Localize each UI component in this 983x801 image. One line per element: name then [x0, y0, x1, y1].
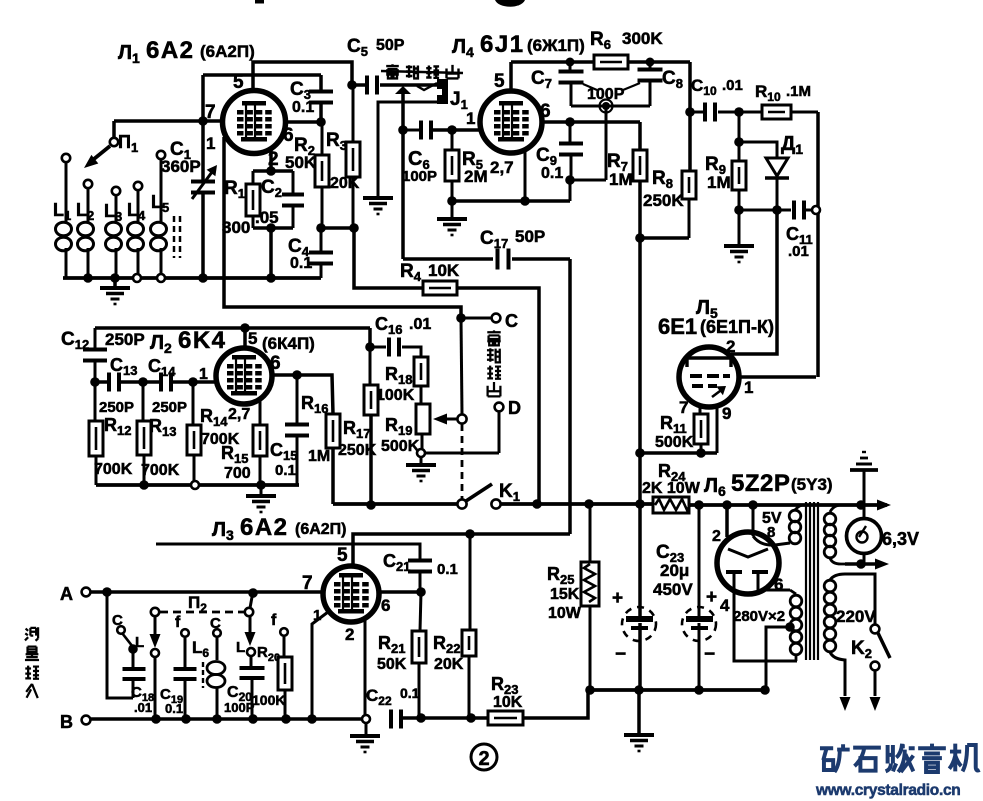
page mark arc (top edge, bottom of circled numeral)	[495, 0, 525, 7]
svg-text:1: 1	[466, 109, 475, 128]
capacitor C2 .05	[292, 171, 295, 194]
switch П2 dashed line	[160, 611, 244, 614]
ground bus of input coils	[63, 276, 321, 280]
resistor R7 1M	[638, 122, 642, 150]
svg-text:50P: 50P	[515, 227, 545, 246]
bus wire left segment	[333, 502, 457, 506]
svg-text:+: +	[612, 588, 623, 609]
svg-text:L: L	[236, 639, 245, 656]
svg-text:1M: 1M	[609, 170, 633, 189]
ground symbol Л2 bus	[260, 485, 263, 495]
switch K2	[871, 625, 880, 634]
label 测量输入	[25, 627, 38, 640]
svg-text:.01: .01	[788, 243, 809, 260]
svg-text:50P: 50P	[376, 37, 405, 54]
svg-text:f: f	[271, 612, 277, 629]
wire C node to wiper	[461, 318, 462, 414]
tube U2 Л4 circle	[480, 91, 542, 153]
svg-text:1M: 1M	[707, 173, 731, 192]
svg-text:250P: 250P	[99, 399, 134, 416]
capacitor C6 100P	[403, 129, 419, 132]
resistor R16 1M	[326, 414, 340, 448]
tube label Л3 6A2(6А2П)	[212, 514, 347, 543]
wire C3 riser	[319, 75, 323, 91]
svg-text:(6Ж1П): (6Ж1П)	[527, 36, 585, 55]
wire R9 branch	[738, 112, 741, 161]
capacitor C10 .01	[690, 111, 703, 114]
svg-text:450V: 450V	[653, 580, 693, 599]
center tap 280V	[785, 622, 795, 632]
label R4 10K	[400, 261, 460, 284]
inductor L3	[106, 187, 122, 278]
svg-text:10W: 10W	[548, 605, 582, 622]
detector output row	[739, 209, 791, 212]
resistor R18 100K	[414, 357, 428, 386]
inductor L1	[56, 154, 72, 278]
wire drop to C9 row	[605, 106, 608, 180]
svg-text:6J1: 6J1	[480, 31, 525, 58]
svg-text:0.1: 0.1	[275, 462, 296, 479]
svg-text:.1M: .1M	[786, 83, 811, 100]
ground symbol above (heater)	[863, 470, 866, 505]
resistor R5 2M	[447, 125, 457, 135]
svg-text:(5Y3): (5Y3)	[791, 475, 833, 494]
svg-text:0.1: 0.1	[541, 165, 563, 182]
wire R3 to R4 drop	[354, 228, 423, 288]
svg-text:6: 6	[540, 101, 551, 122]
label C20	[224, 684, 255, 715]
svg-text:220V: 220V	[836, 607, 876, 626]
bus wire right segment	[501, 502, 653, 506]
svg-text:6K4: 6K4	[178, 327, 227, 354]
pilot lamp 6.3V	[847, 519, 882, 554]
mains plug arrows	[840, 697, 851, 711]
wire Л2 plate corner down	[368, 328, 372, 347]
ground symbol main	[637, 690, 641, 734]
resistor R1 300	[269, 148, 273, 171]
svg-text:6: 6	[283, 125, 294, 146]
svg-text:6A2: 6A2	[240, 514, 289, 541]
winding 6.3V	[830, 505, 840, 512]
wire C17 to Л3 plate	[568, 259, 572, 534]
resistor R15 700	[259, 400, 262, 425]
capacitor C13 250P	[107, 373, 111, 392]
wire grid2 top	[203, 73, 321, 77]
switch K1	[457, 499, 466, 508]
svg-text:f: f	[175, 614, 181, 631]
inductor L5	[151, 151, 167, 278]
pin2 lead Л3	[364, 620, 367, 715]
pin1 lead Л3	[312, 612, 328, 718]
terminal D	[498, 412, 501, 453]
svg-text:700: 700	[224, 465, 251, 482]
switch П1 pivot	[112, 121, 116, 138]
capacitor C16 .01	[370, 346, 386, 349]
A row wire	[90, 590, 323, 594]
resistor R24 2K 10W	[653, 497, 689, 513]
inductor L4	[128, 182, 144, 278]
svg-text:2: 2	[712, 528, 721, 545]
svg-text:1M: 1M	[308, 448, 330, 465]
resistor R23 10K	[488, 711, 523, 725]
tube label 6E1(6Е1П-К)	[658, 314, 774, 339]
wire J1 sleeve to ground	[378, 102, 437, 196]
tube label Л6 5Z2P(5Y3)	[704, 470, 833, 499]
svg-text:.01: .01	[134, 700, 152, 715]
resistor R17 250K	[369, 347, 372, 385]
wire Л5 cathode row	[640, 451, 717, 455]
capacitor C21 0.1	[408, 559, 432, 563]
potentiometer R19 500K	[416, 404, 430, 434]
R19 bottom node	[417, 449, 425, 457]
watermark 矿石收音机	[820, 744, 850, 772]
wire pin1 Л1 to C node	[224, 137, 461, 318]
wire pin6 row Л4	[542, 120, 640, 124]
resistor R12 700K	[94, 382, 97, 421]
pin6 row Л2	[272, 375, 333, 414]
svg-text:250K: 250K	[643, 191, 684, 210]
wire R7 long drop	[638, 238, 642, 453]
B+ arrow	[877, 500, 891, 511]
svg-text:500K: 500K	[655, 434, 694, 451]
svg-text:(6Е1П-К): (6Е1П-К)	[700, 317, 774, 337]
wire pin5 top feedback	[253, 62, 352, 91]
LF output label 低频输出	[487, 330, 500, 345]
svg-text:C: C	[505, 311, 518, 331]
svg-text:8: 8	[767, 524, 775, 541]
resistor R11 500K	[699, 405, 702, 414]
tube U3 Л2 circle	[216, 348, 272, 404]
svg-text:6A2: 6A2	[146, 37, 195, 64]
svg-text:10K: 10K	[493, 694, 523, 711]
switch П1 arrow lever	[89, 146, 110, 163]
bus to rectifier	[689, 503, 887, 507]
svg-text:1: 1	[206, 134, 215, 153]
resistor R25 15K 10W	[589, 504, 592, 562]
label R10 .1M	[755, 82, 811, 104]
inductor L6	[202, 662, 204, 688]
svg-text:4: 4	[720, 596, 730, 615]
svg-text:5: 5	[337, 545, 348, 566]
svg-text:.05: .05	[255, 208, 279, 227]
lamp leads	[863, 505, 866, 518]
svg-text:0.1: 0.1	[290, 255, 312, 272]
HF output label 高频输出 (struck out)	[381, 64, 463, 90]
resistor R13 700K	[142, 382, 145, 421]
svg-text:A: A	[60, 584, 73, 604]
svg-text:−: −	[615, 644, 626, 665]
wire Л5 pin2	[731, 210, 777, 354]
П2 right lever	[250, 597, 252, 608]
svg-text:15K: 15K	[550, 586, 580, 603]
jack J1	[437, 79, 448, 104]
svg-text:6E1: 6E1	[658, 314, 697, 339]
svg-text:5Z2P: 5Z2P	[731, 470, 790, 497]
svg-text:20μ: 20μ	[660, 561, 689, 580]
svg-text:250P: 250P	[152, 399, 187, 416]
resistor R20 100K	[283, 636, 286, 657]
capacitor C5 50P	[352, 83, 366, 87]
svg-text:6: 6	[270, 353, 281, 374]
tube U6 Л6 circle	[717, 532, 779, 594]
resistor R21 50K	[420, 592, 421, 631]
tube U1 Л1 circle	[223, 91, 286, 154]
svg-text:9: 9	[722, 404, 731, 423]
wire Л6 pin4	[734, 592, 797, 661]
svg-text:360P: 360P	[161, 157, 201, 176]
resistor R22 20K	[469, 534, 472, 630]
resistor R6 300K	[594, 55, 628, 69]
resistor R2 50K	[321, 122, 324, 155]
svg-text:B: B	[60, 712, 73, 732]
label C19	[160, 686, 183, 716]
svg-text:.01: .01	[409, 316, 431, 333]
svg-text:50K: 50K	[285, 153, 317, 172]
capacitor C3 0.1	[309, 90, 333, 94]
wire J1 tip drop	[401, 94, 405, 259]
svg-text:100P: 100P	[224, 700, 255, 715]
label C17 50P	[480, 227, 545, 251]
label C16 .01	[375, 314, 431, 337]
wire C7 C8 bottom	[571, 105, 650, 108]
wire C21 feed	[156, 544, 420, 560]
svg-text:250P: 250P	[105, 330, 145, 349]
resistor R4 10K	[423, 281, 457, 295]
svg-text:1: 1	[744, 378, 753, 397]
wire AVC right riser	[816, 112, 820, 377]
capacitor C8	[649, 62, 652, 69]
ground symbol Л3	[350, 734, 380, 738]
svg-text:5: 5	[233, 72, 244, 93]
wire Л6 pin2 from bus	[725, 505, 729, 537]
circled 2 page marker	[471, 744, 497, 770]
label C18	[131, 684, 154, 715]
wire Л5 pin1	[739, 375, 816, 379]
junction ring C7C8	[602, 102, 610, 110]
cathode row Л4	[452, 199, 570, 203]
wire C1 riser	[201, 75, 205, 181]
resistor R14 700K	[192, 382, 195, 425]
wire R2 R3 bottom link	[321, 226, 354, 230]
svg-text:www.crystalradio.cn: www.crystalradio.cn	[815, 782, 960, 799]
label C22	[366, 685, 420, 708]
ground symbol under R5	[451, 201, 454, 218]
resistor R10 1M	[762, 105, 791, 119]
capacitor C18 .01	[128, 644, 138, 654]
L5 core dashes	[173, 216, 176, 258]
svg-text:(6А2П): (6А2П)	[200, 42, 255, 61]
svg-text:D: D	[508, 398, 521, 418]
svg-text:0.1: 0.1	[292, 99, 314, 116]
label C11	[786, 224, 813, 260]
capacitor C4 0.1	[320, 228, 323, 252]
capacitor C1 360P variable	[202, 181, 205, 184]
Л5 guts	[687, 358, 731, 367]
svg-text:100P: 100P	[402, 168, 437, 185]
R19 wiper arrow	[438, 418, 458, 421]
П2 left lever	[154, 616, 157, 642]
wire plate corner to C10	[688, 62, 692, 171]
svg-text:0.1: 0.1	[400, 685, 420, 701]
capacitor C14 250P	[159, 373, 163, 392]
cathode bus Л2	[96, 483, 299, 487]
heater wire lower	[845, 562, 884, 566]
pin6 row Л3	[379, 590, 421, 594]
capacitor C22 0.1 in B row	[389, 710, 393, 729]
wire R1C2 bottom	[253, 226, 293, 230]
svg-text:700K: 700K	[141, 462, 180, 479]
capacitor C7 100P	[569, 62, 572, 71]
svg-text:.01: .01	[722, 77, 743, 94]
svg-text:2M: 2M	[464, 167, 488, 186]
transformer core	[805, 502, 807, 660]
wire R7R8 drop to bus	[638, 453, 642, 504]
grid row Л2	[95, 380, 109, 384]
winding 5V	[752, 505, 755, 536]
svg-text:300: 300	[222, 218, 250, 237]
svg-text:0.1: 0.1	[165, 701, 183, 716]
tube label Л1 6A2(6А2П)	[118, 37, 255, 66]
svg-text:10K: 10K	[428, 261, 460, 280]
svg-text:2,7: 2,7	[228, 406, 250, 423]
resistor R9 1M	[732, 161, 746, 190]
svg-text:20K: 20K	[434, 656, 464, 673]
svg-text:6,3V: 6,3V	[882, 529, 919, 549]
capacitor C11 .01	[792, 201, 796, 220]
ground symbol under R9	[738, 210, 741, 246]
Л6 guts	[728, 549, 768, 557]
tube U5 Л5 circle	[679, 347, 739, 407]
capacitor C23b electrolytic	[698, 505, 701, 617]
inductor L2	[78, 180, 94, 278]
wire pin6 row	[285, 120, 321, 124]
page mark bar (top edge)	[255, 0, 264, 4]
svg-text:100K: 100K	[252, 692, 285, 708]
capacitor C17 50P	[403, 257, 493, 261]
wire pin7 row	[114, 119, 222, 123]
B row right wires	[400, 716, 488, 720]
svg-text:2: 2	[478, 748, 489, 770]
winding 220V	[830, 574, 875, 624]
capacitor C20 100P	[250, 656, 253, 667]
resistor R8 250K	[689, 170, 692, 173]
capacitor C12 250P	[94, 328, 97, 349]
svg-text:2: 2	[345, 625, 354, 644]
winding 280Vx2	[763, 589, 790, 592]
svg-text:5: 5	[494, 71, 505, 92]
capacitor C19 0.1	[174, 667, 197, 671]
capacitor C9 0.1	[569, 122, 572, 143]
svg-text:2K 10W: 2K 10W	[642, 480, 701, 497]
ground symbol J1	[363, 196, 393, 200]
svg-text:100K: 100K	[376, 387, 415, 404]
svg-text:700K: 700K	[94, 461, 133, 478]
svg-text:300K: 300K	[622, 29, 663, 48]
svg-text:50K: 50K	[377, 656, 407, 673]
label C10 .01	[691, 76, 743, 98]
svg-text:7: 7	[679, 398, 688, 417]
svg-text:(6А2П): (6А2П)	[295, 521, 347, 538]
wire Л3 plate row	[353, 534, 570, 566]
svg-text:280V×2: 280V×2	[733, 608, 785, 625]
B row wire	[90, 717, 363, 721]
capacitor C15 0.1	[296, 375, 299, 424]
negative return row	[588, 688, 765, 692]
resistor R3 20K	[352, 85, 355, 142]
ground symbol R19	[420, 457, 423, 464]
wire plate top row	[511, 60, 594, 64]
tube U4 Л3 circle	[323, 566, 379, 622]
svg-text:(6К4П): (6К4П)	[262, 334, 315, 353]
capacitor C23a electrolytic	[638, 504, 642, 617]
svg-text:+: +	[706, 587, 717, 608]
svg-text:5: 5	[248, 329, 257, 348]
svg-text:6: 6	[381, 596, 390, 615]
diode Д1	[739, 142, 777, 158]
svg-text:−: −	[704, 644, 715, 665]
svg-text:500K: 500K	[381, 438, 420, 455]
terminal C	[461, 317, 492, 320]
svg-text:20K: 20K	[330, 175, 360, 192]
svg-text:0.1: 0.1	[437, 561, 458, 578]
svg-text:250K: 250K	[338, 442, 377, 459]
tube label Л2 6K4 (6К4П)	[150, 327, 315, 356]
tube label Л4 6J1(6Ж1П)	[452, 31, 585, 60]
svg-text:2,7: 2,7	[490, 158, 514, 177]
dashed link wiper to K1	[461, 424, 464, 499]
ground symbol input bus	[113, 278, 117, 288]
wire Л2 plate top row	[95, 326, 370, 330]
